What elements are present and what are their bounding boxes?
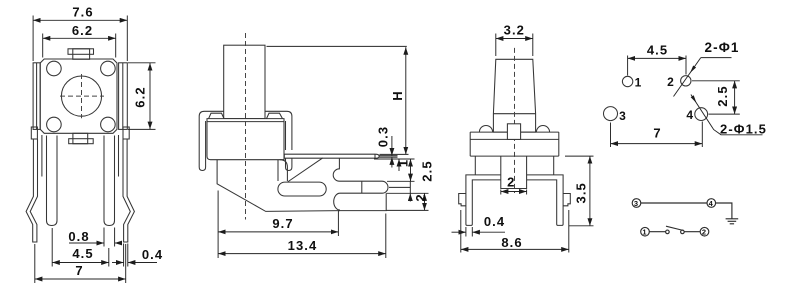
plate left profile [217,160,340,212]
hole 2 [681,76,691,86]
hole 4 [695,108,708,121]
dim 3.5 [589,156,591,226]
plate bottom and right edge [339,193,386,210]
left hook [459,194,466,206]
svg-text:1: 1 [396,159,411,167]
svg-text:13.4: 13.4 [288,238,318,253]
dim 1 [398,159,400,171]
H extension line from stem top [267,45,407,47]
svg-text:0.4: 0.4 [142,247,163,262]
dim 7 (pcb) [611,143,703,145]
wire 4 to ground [716,203,732,219]
outer bent pin left [26,139,37,242]
svg-text:2: 2 [667,75,675,89]
outer bent pin right [123,139,134,242]
left ear tab [209,113,224,118]
left bracket foot [31,127,37,139]
stem (plunger side) [224,45,265,118]
svg-text:4: 4 [686,108,694,122]
dim H [405,47,407,154]
svg-text:2-Φ1.5: 2-Φ1.5 [720,122,767,137]
left side bracket [33,63,40,130]
left dome [479,125,492,132]
pin 2 circled [700,227,709,236]
svg-text:4.5: 4.5 [647,43,668,58]
prong tip [334,181,388,210]
pin 4 circled [707,199,716,208]
dim 2.5 [410,159,412,181]
svg-text:0.8: 0.8 [68,229,89,244]
center leg front [501,156,527,188]
svg-text:2.5: 2.5 [420,160,435,181]
switch arm [666,226,684,230]
plastic post left [41,135,43,177]
contact a [666,230,670,234]
dim 0.3 [391,136,393,156]
right ear tab [267,113,283,118]
dim 13.4 [218,253,386,255]
svg-text:2: 2 [413,193,428,201]
ext lines right of arm [380,153,409,155]
contact arm strip [284,154,379,158]
body front block [470,138,559,140]
center button circle [61,76,101,116]
svg-text:0.4: 0.4 [484,214,505,229]
center line dashed vertical [245,33,247,220]
center tab front [507,124,520,140]
metal bracket outer [199,111,292,167]
pin 1 circled [641,227,650,236]
dim 6.2 horizontal [43,37,116,39]
bracket corner step [277,160,279,181]
svg-text:4.5: 4.5 [72,246,93,261]
dim 4.5 (pcb) [628,57,686,59]
contact tip [379,155,397,157]
top tab stem [73,49,90,60]
leader 2-phi1 [674,58,701,97]
shoulder + left leg [466,175,501,226]
dim 0.4 (front) [452,231,466,233]
dim 6.2 vertical (right side) [149,63,151,129]
dim 2.5 (pcb) [734,81,736,114]
svg-text:4: 4 [709,199,714,208]
svg-text:7: 7 [653,125,661,140]
svg-text:0.3: 0.3 [376,126,391,147]
stem tapered [493,59,535,132]
svg-text:3.2: 3.2 [504,23,525,38]
hole 1 [622,76,632,86]
svg-text:1: 1 [642,228,647,237]
hole 3 [604,107,618,121]
dim 9.7 [218,231,338,233]
bracket left arm inner+bottom [199,121,205,171]
svg-text:7.6: 7.6 [72,5,93,20]
svg-text:3: 3 [634,199,639,208]
centerline dashed [514,48,516,193]
corner rivet circle top-left [47,61,62,76]
fold diagonal [288,158,323,182]
wire contact to 2 [684,231,700,233]
svg-text:3: 3 [619,109,627,123]
cap line [207,121,284,123]
svg-text:2.5: 2.5 [715,85,730,106]
dim 2 (front) [501,191,527,193]
dim 7.6 [33,19,127,21]
centerline horizontal (dashed) [60,95,104,97]
wire 1 to contact [649,231,665,233]
contact b [681,230,685,234]
svg-text:3.5: 3.5 [574,182,589,203]
dim 3.2 [496,38,533,40]
corner rivet circle bottom-right [101,117,116,132]
dim 0.4 (view1) [112,262,124,264]
svg-text:8.6: 8.6 [501,235,522,250]
svg-text:2: 2 [702,228,707,237]
svg-text:1: 1 [635,76,643,90]
top tab flange [68,49,94,55]
body block (side) [207,119,284,160]
dim 8.6 [461,248,569,250]
inner pin right [104,136,115,226]
stem section line [493,113,535,115]
svg-text:7: 7 [75,263,83,278]
switch body outline (top view) [40,59,117,133]
corner rivet circle top-right [101,61,116,76]
pin 3 circled [632,199,641,208]
bracket right arm inner+bottom [286,158,292,171]
plastic post right [118,135,120,177]
svg-text:6.2: 6.2 [72,23,93,38]
ground [726,218,739,220]
leader 2-phi1.5 [691,95,763,135]
wire 3 to 4 [641,202,707,204]
svg-text:6.2: 6.2 [133,86,148,107]
inner pin left [47,136,58,226]
prong tick [361,181,363,193]
bottom tab flange [69,139,94,144]
right dome [536,126,549,133]
dim 7 [35,278,126,280]
body divider line [470,155,559,157]
plate slot [278,182,326,196]
right side bracket [119,63,128,130]
svg-text:9.7: 9.7 [272,216,293,231]
plate right step [333,158,382,181]
dim 4.5 [52,262,109,264]
centerline vertical (dashed) [81,74,83,118]
body top line [470,131,559,133]
arm tick [374,154,376,158]
right hook [563,194,570,206]
bottom tab stem [73,133,88,143]
svg-text:H: H [390,90,405,101]
shoulder + right leg [527,175,564,226]
svg-text:2: 2 [507,175,515,190]
dim 0.8 [69,242,104,244]
right bracket foot [123,127,129,139]
svg-text:2-Φ1: 2-Φ1 [705,40,740,55]
corner rivet circle bottom-left [47,117,62,132]
dim 2 (side view) [409,181,411,193]
